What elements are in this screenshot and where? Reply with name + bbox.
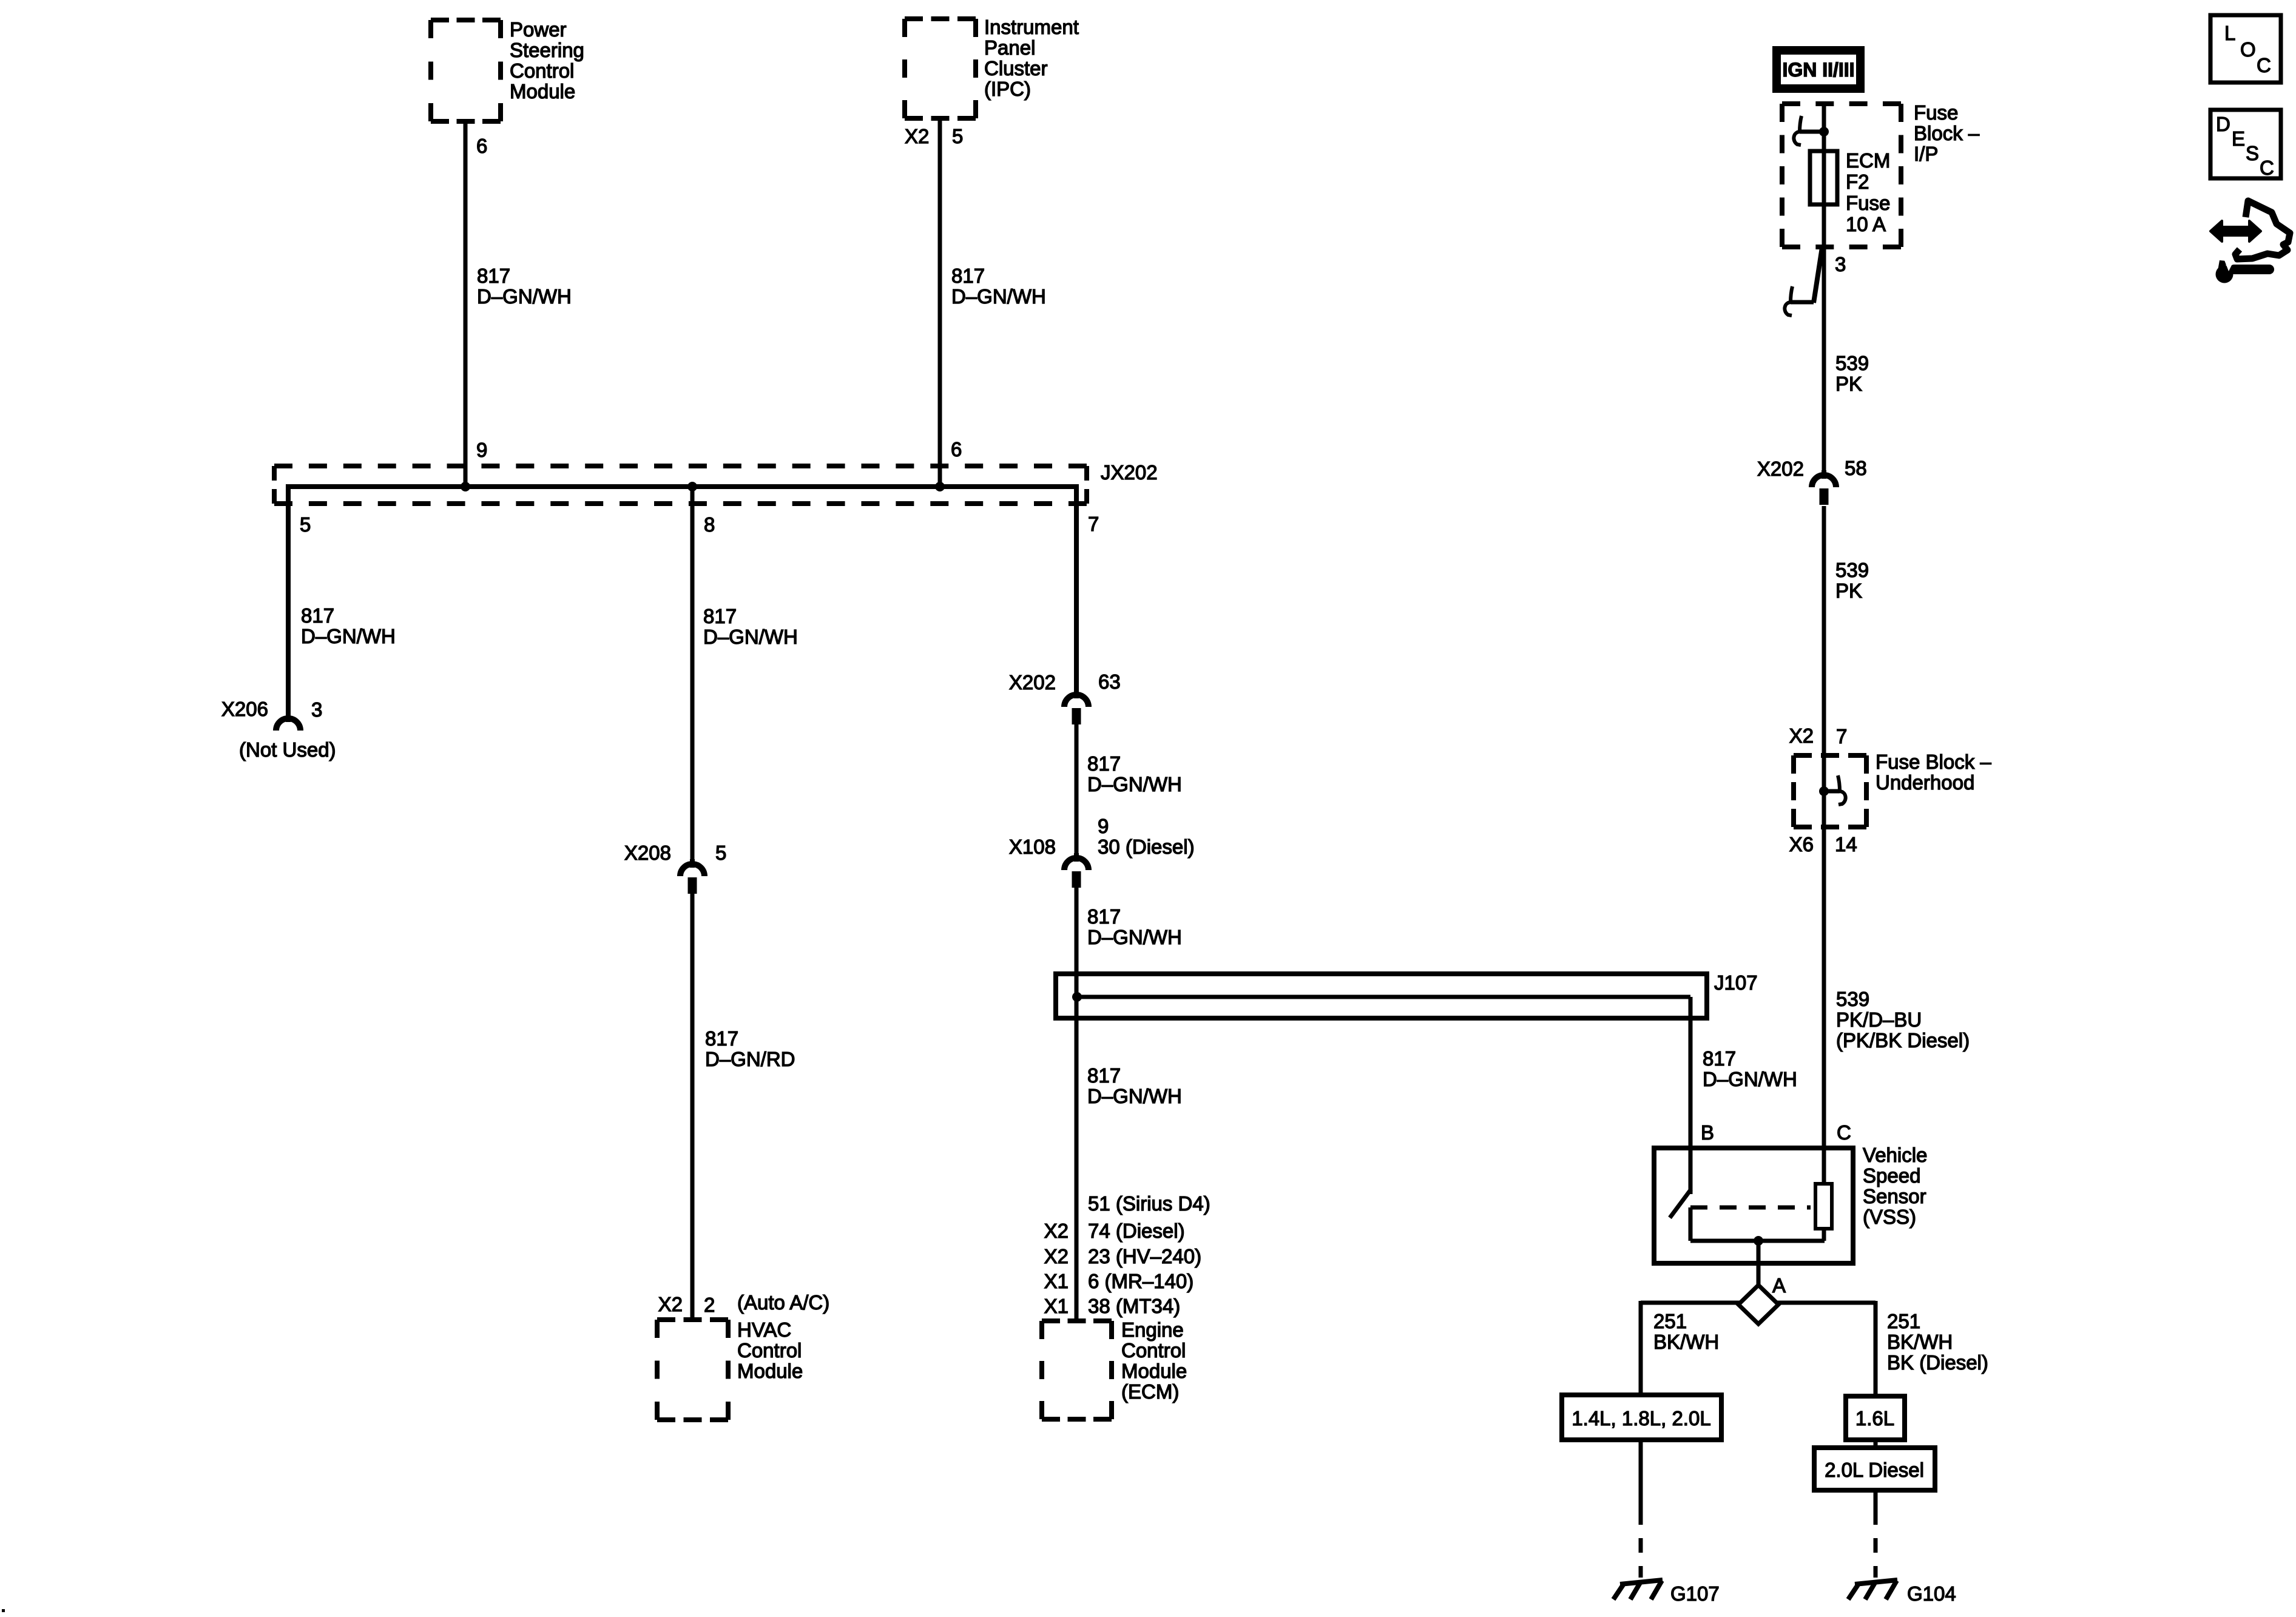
svg-text:817: 817: [1703, 1047, 1736, 1070]
svg-text:X1: X1: [1044, 1295, 1069, 1317]
svg-text:63: 63: [1098, 670, 1121, 693]
svg-text:Panel: Panel: [984, 36, 1035, 59]
svg-text:Fuse: Fuse: [1846, 192, 1890, 214]
svg-text:Speed: Speed: [1863, 1164, 1920, 1187]
svg-text:23 (HV–240): 23 (HV–240): [1088, 1245, 1201, 1268]
svg-text:L: L: [2224, 22, 2235, 44]
svg-text:C: C: [2257, 54, 2271, 76]
svg-text:G104: G104: [1907, 1582, 1956, 1605]
svg-text:Cluster: Cluster: [984, 57, 1048, 79]
svg-text:Control: Control: [737, 1339, 802, 1362]
svg-text:D–GN/WH: D–GN/WH: [301, 625, 396, 647]
svg-text:I/P: I/P: [1914, 143, 1938, 165]
svg-text:51 (Sirius D4): 51 (Sirius D4): [1088, 1192, 1210, 1215]
svg-text:Control: Control: [510, 59, 574, 82]
svg-text:10 A: 10 A: [1846, 213, 1886, 235]
svg-text:C: C: [1837, 1121, 1851, 1144]
svg-text:X2: X2: [1044, 1220, 1069, 1242]
svg-text:PK: PK: [1835, 373, 1862, 395]
svg-text:817: 817: [477, 265, 510, 287]
svg-text:X202: X202: [1757, 457, 1804, 480]
svg-text:251: 251: [1887, 1310, 1920, 1332]
svg-text:X2: X2: [905, 125, 929, 147]
svg-text:E: E: [2232, 127, 2245, 150]
svg-text:A: A: [1772, 1274, 1786, 1297]
svg-text:G107: G107: [1670, 1582, 1720, 1605]
svg-text:74 (Diesel): 74 (Diesel): [1088, 1220, 1185, 1242]
svg-text:D–GN/WH: D–GN/WH: [477, 285, 572, 308]
svg-text:817: 817: [1087, 752, 1121, 775]
svg-text:2: 2: [704, 1294, 715, 1316]
svg-text:X208: X208: [624, 842, 671, 864]
svg-text:817: 817: [301, 604, 334, 627]
svg-text:BK/WH: BK/WH: [1653, 1331, 1719, 1353]
svg-text:817: 817: [705, 1027, 738, 1050]
svg-text:Fuse: Fuse: [1914, 101, 1958, 124]
svg-text:D–GN/WH: D–GN/WH: [1087, 773, 1182, 795]
svg-text:D–GN/WH: D–GN/WH: [951, 285, 1046, 308]
svg-text:F2: F2: [1846, 170, 1869, 193]
svg-text:(Auto A/C): (Auto A/C): [737, 1291, 829, 1314]
svg-text:Engine: Engine: [1121, 1318, 1184, 1341]
svg-text:3: 3: [1835, 253, 1846, 275]
svg-text:(PK/BK Diesel): (PK/BK Diesel): [1836, 1029, 1970, 1052]
svg-text:S: S: [2246, 142, 2259, 164]
svg-text:X202: X202: [1009, 671, 1056, 694]
svg-text:817: 817: [1087, 1064, 1121, 1087]
svg-text:D–GN/RD: D–GN/RD: [705, 1048, 795, 1070]
svg-text:X6: X6: [1789, 833, 1814, 856]
svg-text:BK (Diesel): BK (Diesel): [1887, 1351, 1988, 1374]
svg-text:(VSS): (VSS): [1863, 1206, 1916, 1228]
svg-text:Fuse Block –: Fuse Block –: [1876, 751, 1991, 773]
svg-text:C: C: [2260, 157, 2274, 179]
svg-text:817: 817: [703, 605, 737, 627]
svg-text:2.0L Diesel: 2.0L Diesel: [1825, 1459, 1924, 1481]
svg-text:5: 5: [300, 513, 311, 536]
svg-text:IGN II/III: IGN II/III: [1782, 59, 1854, 81]
svg-text:D–GN/WH: D–GN/WH: [1087, 926, 1182, 948]
svg-text:30 (Diesel): 30 (Diesel): [1098, 836, 1195, 858]
svg-text:X2: X2: [658, 1293, 683, 1315]
svg-text:(Not Used): (Not Used): [239, 738, 336, 761]
svg-text:5: 5: [715, 842, 726, 864]
svg-text:O: O: [2240, 38, 2256, 61]
svg-text:1.6L: 1.6L: [1855, 1407, 1894, 1430]
svg-text:JX202: JX202: [1101, 461, 1158, 484]
svg-text:817: 817: [951, 265, 985, 287]
svg-text:(IPC): (IPC): [984, 78, 1031, 100]
svg-text:Module: Module: [510, 80, 575, 103]
svg-text:7: 7: [1088, 513, 1099, 535]
svg-text:1.4L, 1.8L, 2.0L: 1.4L, 1.8L, 2.0L: [1572, 1407, 1710, 1430]
svg-text:X1: X1: [1044, 1270, 1069, 1292]
svg-text:9: 9: [1098, 815, 1109, 837]
svg-text:58: 58: [1845, 457, 1867, 479]
svg-text:Module: Module: [1121, 1360, 1187, 1382]
svg-text:Power: Power: [510, 18, 567, 41]
svg-text:539: 539: [1835, 559, 1869, 581]
svg-text:Control: Control: [1121, 1339, 1186, 1362]
svg-text:6: 6: [476, 135, 487, 157]
svg-text:3: 3: [311, 698, 322, 721]
svg-text:HVAC: HVAC: [737, 1318, 791, 1341]
svg-text:5: 5: [952, 125, 963, 147]
svg-text:X206: X206: [221, 698, 268, 720]
svg-text:BK/WH: BK/WH: [1887, 1331, 1953, 1353]
svg-text:Block –: Block –: [1914, 122, 1980, 144]
svg-text:Sensor: Sensor: [1863, 1185, 1926, 1207]
svg-text:ECM: ECM: [1846, 149, 1890, 172]
svg-text:D: D: [2216, 113, 2230, 135]
svg-text:J107: J107: [1714, 971, 1758, 994]
svg-text:(ECM): (ECM): [1121, 1380, 1179, 1403]
svg-text:Steering: Steering: [510, 39, 584, 61]
svg-text:X2: X2: [1789, 724, 1814, 747]
svg-text:Vehicle: Vehicle: [1863, 1144, 1927, 1166]
svg-text:6: 6: [951, 438, 962, 461]
svg-text:PK/D–BU: PK/D–BU: [1836, 1008, 1922, 1031]
svg-text:Underhood: Underhood: [1876, 771, 1974, 794]
svg-text:7: 7: [1836, 725, 1847, 748]
svg-text:D–GN/WH: D–GN/WH: [1087, 1085, 1182, 1107]
svg-text:8: 8: [704, 513, 715, 536]
svg-text:251: 251: [1653, 1310, 1687, 1332]
svg-text:D–GN/WH: D–GN/WH: [1703, 1068, 1797, 1090]
svg-text:9: 9: [476, 439, 487, 461]
svg-text:D–GN/WH: D–GN/WH: [703, 626, 798, 648]
svg-text:817: 817: [1087, 905, 1121, 928]
svg-text:X108: X108: [1009, 836, 1056, 858]
svg-text:6 (MR–140): 6 (MR–140): [1088, 1270, 1194, 1292]
svg-text:539: 539: [1835, 352, 1869, 374]
svg-text:539: 539: [1836, 988, 1869, 1010]
svg-text:Module: Module: [737, 1360, 803, 1382]
svg-text:X2: X2: [1044, 1245, 1069, 1268]
svg-text:PK: PK: [1835, 579, 1862, 602]
svg-text:38 (MT34): 38 (MT34): [1088, 1295, 1180, 1317]
svg-text:B: B: [1701, 1121, 1714, 1144]
svg-text:14: 14: [1835, 833, 1857, 856]
svg-text:Instrument: Instrument: [984, 16, 1079, 38]
